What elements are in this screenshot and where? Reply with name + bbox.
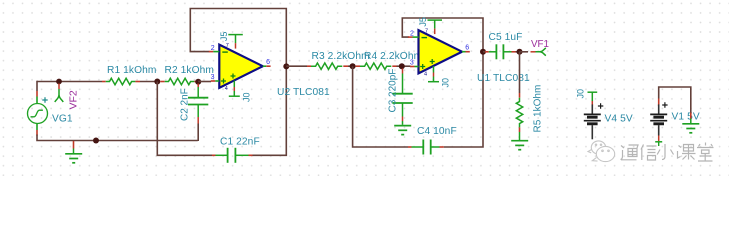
svg-text:R3 2.2kOhm: R3 2.2kOhm	[312, 51, 370, 62]
jumper bar (below V1)	[655, 141, 662, 143]
wire: R1 to node A	[140, 81, 160, 83]
probe VF2	[58, 84, 60, 90]
op-amp U1	[408, 17, 470, 87]
char 信	[641, 145, 657, 161]
source VG1 bottom pin	[36, 124, 38, 131]
wire: VF1 node down to R5	[519, 52, 521, 93]
svg-text:C2 2nF: C2 2nF	[180, 88, 191, 121]
resistor R2	[160, 81, 164, 83]
capacitor C5	[485, 51, 489, 53]
char 课	[678, 145, 696, 160]
capacitor C4	[408, 146, 412, 148]
node A junction dot	[154, 79, 160, 85]
wire to VF1 node	[516, 51, 520, 53]
svg-text:C3 220pF: C3 220pF	[388, 69, 399, 113]
probe VF1	[520, 51, 529, 53]
svg-text:C4 10nF: C4 10nF	[417, 126, 457, 137]
wire: node C down, C4 path	[353, 66, 408, 147]
wire: U2 feedback top box	[190, 9, 286, 67]
char 小	[657, 144, 673, 160]
wire: U1 feedback top box	[402, 18, 483, 52]
wire: VG1 bottom to ground rail	[37, 135, 198, 141]
source VG1 plus sign	[42, 97, 47, 102]
svg-text:R5 1kOhm: R5 1kOhm	[533, 85, 544, 133]
battery V4 bottom open lead	[591, 128, 593, 140]
wire: node B to U2 pin3	[198, 81, 211, 83]
watermark logo chick 1	[591, 141, 605, 154]
resistor R5	[519, 93, 521, 98]
battery V1 bottom pin	[658, 128, 660, 136]
svg-text:VF2: VF2	[68, 90, 80, 109]
capacitor C3	[402, 69, 404, 74]
node D junction dot	[399, 63, 405, 69]
node: U1 output junction dot	[480, 49, 486, 55]
node C junction dot	[350, 63, 356, 69]
svg-text:R2 1kOhm: R2 1kOhm	[165, 65, 215, 76]
svg-text:VF1: VF1	[531, 39, 549, 50]
svg-text:C1 22nF: C1 22nF	[220, 136, 260, 147]
battery V1	[650, 104, 667, 128]
node: VF2 junction dot	[56, 79, 62, 85]
source VG1 body	[28, 104, 48, 124]
svg-text:J0: J0	[576, 89, 586, 99]
char 堂	[697, 143, 714, 162]
ground (below VG1 rail)	[73, 141, 75, 149]
wire: VG1 top vertical	[36, 81, 38, 91]
capacitor C1	[212, 154, 216, 156]
node B junction dot	[195, 79, 201, 85]
source VG1 top pin	[36, 91, 38, 97]
watermark logo chick 2	[596, 146, 614, 161]
battery V4	[584, 104, 601, 128]
wire: C2 bottom to ground rail	[197, 124, 199, 142]
wire R4 to node D	[397, 65, 411, 67]
svg-text:R1 1kOhm: R1 1kOhm	[107, 65, 157, 76]
ground (below C3)	[394, 126, 411, 135]
watermark text 通信小课堂	[621, 143, 714, 162]
wire: U1 output to C5	[483, 51, 485, 53]
wire: C4 to U1 output vertical	[444, 52, 483, 147]
svg-text:C5 1uF: C5 1uF	[489, 32, 523, 43]
svg-text:U2 TLC081: U2 TLC081	[277, 87, 330, 98]
capacitor C2	[197, 84, 199, 88]
node: rail junction dot	[93, 138, 99, 144]
svg-text:V1 5V: V1 5V	[672, 112, 700, 123]
svg-text:VG1: VG1	[52, 114, 73, 125]
wire: VG1 top to R1 (signal rail y=81.5)	[37, 81, 102, 83]
char 通	[621, 145, 639, 160]
ground (below R5)	[511, 141, 528, 150]
battery V1 top pin	[658, 99, 660, 107]
battery V1 plus sign	[662, 102, 667, 107]
resistor R4	[356, 65, 360, 67]
wire: C1 to output node vertical	[253, 66, 287, 155]
resistor R1	[102, 81, 106, 83]
op-amp U2	[209, 32, 271, 102]
wire R3 to node C	[348, 65, 354, 67]
ground (right of V1)	[690, 113, 692, 119]
node: VF1 junction dot	[517, 49, 523, 55]
wire: V1 plus to ground loop	[659, 87, 691, 113]
wire: U2 output to R3	[286, 65, 307, 67]
wire: node A down and C1 feedback path	[157, 82, 212, 156]
resistor R3	[307, 65, 311, 67]
battery V4 plus sign	[598, 103, 603, 108]
node: U2 output junction dot	[283, 63, 289, 69]
svg-text:U1 TLC081: U1 TLC081	[477, 73, 530, 84]
jumper J0 (above V4)	[588, 91, 598, 93]
svg-text:V4 5V: V4 5V	[605, 113, 633, 124]
